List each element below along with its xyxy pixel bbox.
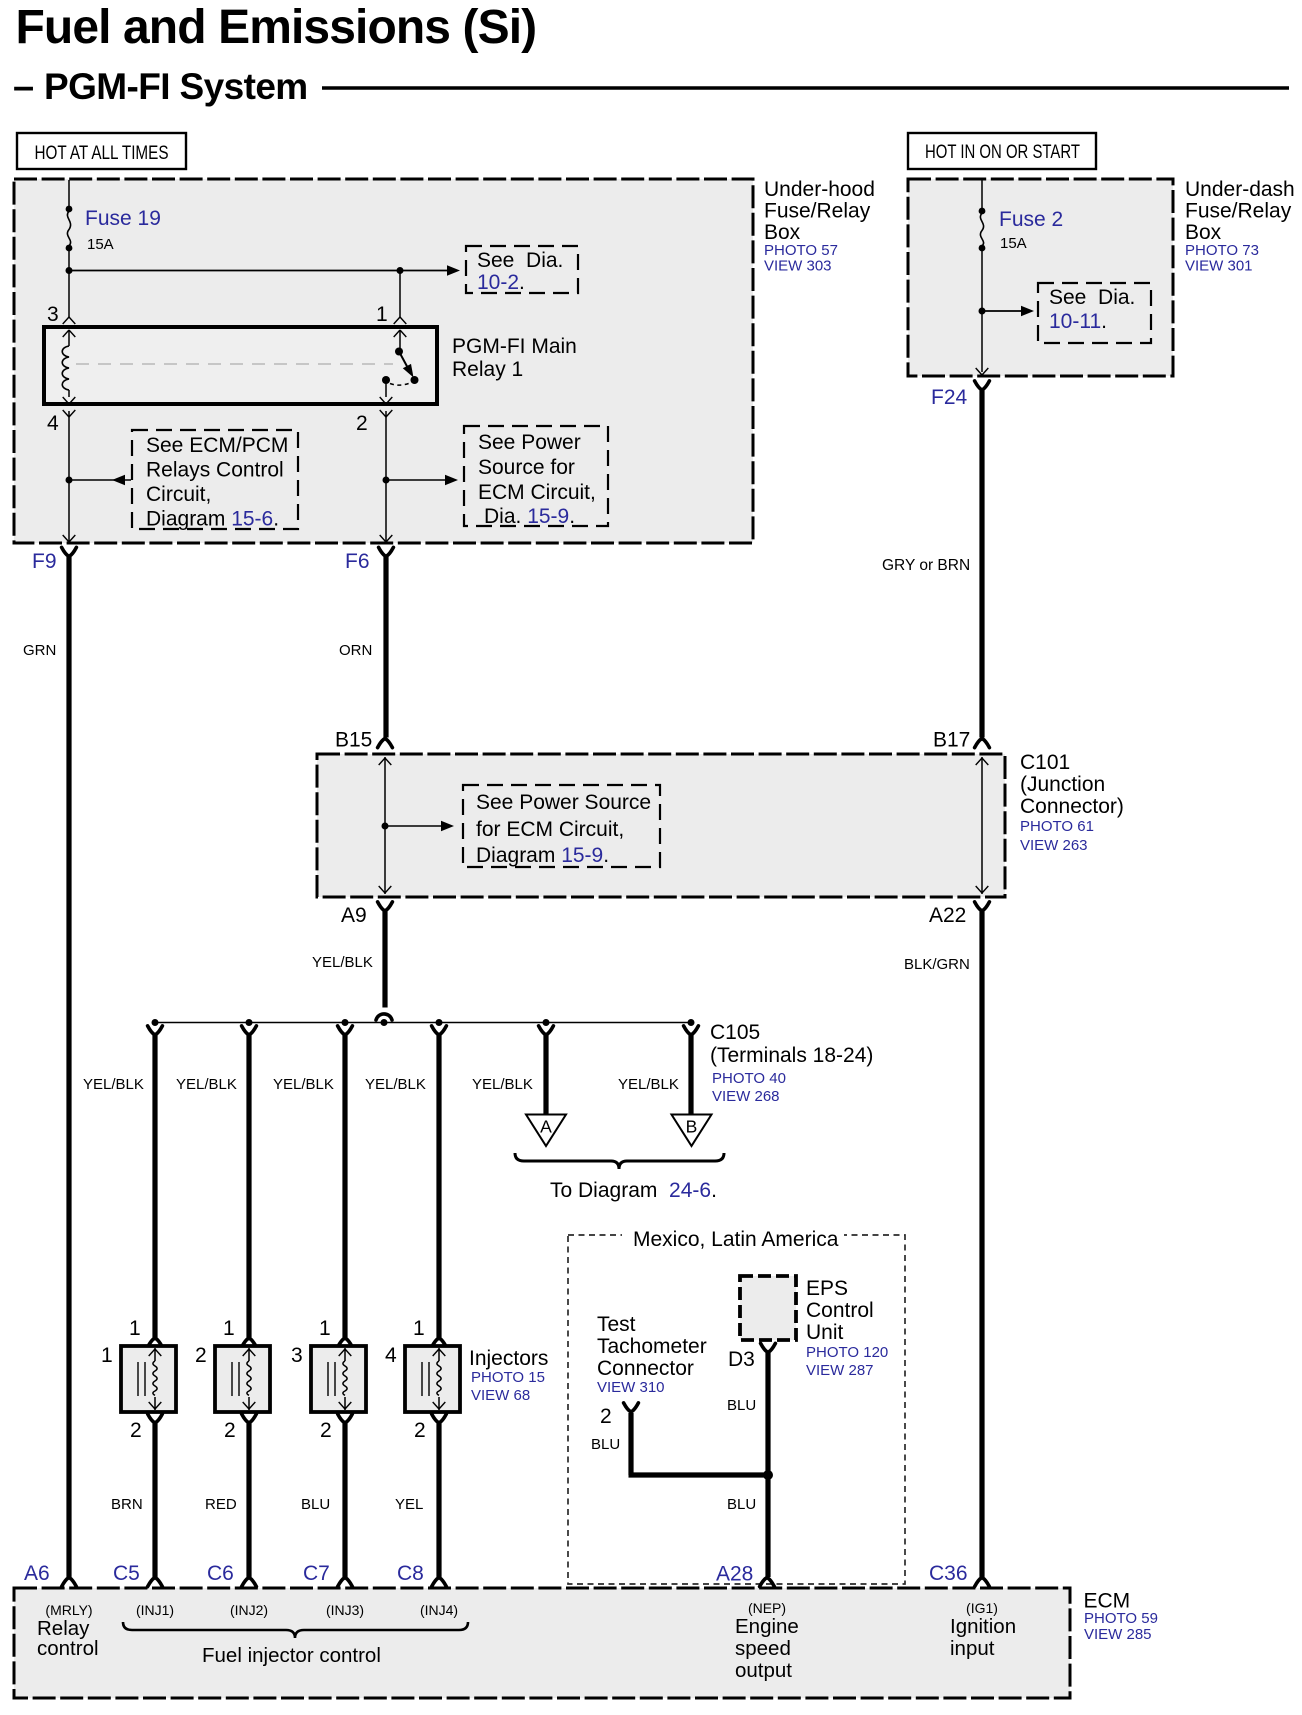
- svg-text:YEL/BLK: YEL/BLK: [472, 1076, 533, 1093]
- svg-text:See Dia.: See Dia.: [477, 249, 563, 272]
- svg-text:To Diagram 24-6.: To Diagram 24-6.: [550, 1179, 717, 1202]
- svg-text:B15: B15: [335, 729, 372, 752]
- svg-text:(Terminals 18-24): (Terminals 18-24): [710, 1044, 873, 1067]
- svg-text:HOT AT ALL TIMES: HOT AT ALL TIMES: [35, 142, 169, 164]
- svg-text:See Power Source: See Power Source: [476, 791, 651, 814]
- svg-text:VIEW 301: VIEW 301: [1185, 258, 1253, 275]
- svg-text:Test: Test: [597, 1313, 636, 1336]
- svg-text:GRN: GRN: [23, 642, 56, 659]
- svg-text:Fuel injector control: Fuel injector control: [202, 1644, 381, 1667]
- svg-text:EPS: EPS: [806, 1277, 848, 1300]
- svg-text:HOT IN ON OR START: HOT IN ON OR START: [925, 141, 1080, 163]
- svg-text:Mexico, Latin America: Mexico, Latin America: [633, 1228, 839, 1251]
- svg-text:B: B: [686, 1117, 698, 1137]
- svg-text:C7: C7: [303, 1562, 330, 1585]
- svg-text:VIEW 310: VIEW 310: [597, 1379, 665, 1396]
- svg-text:10-2.: 10-2.: [477, 271, 525, 294]
- svg-text:YEL/BLK: YEL/BLK: [83, 1076, 144, 1093]
- svg-text:Connector): Connector): [1020, 795, 1124, 818]
- svg-text:(INJ2): (INJ2): [230, 1602, 268, 1618]
- svg-text:Relays Control: Relays Control: [146, 459, 284, 482]
- svg-text:(INJ3): (INJ3): [326, 1602, 364, 1618]
- svg-text:BLU: BLU: [301, 1496, 330, 1513]
- svg-text:F6: F6: [345, 550, 370, 573]
- svg-text:2: 2: [356, 412, 368, 435]
- svg-text:See Power: See Power: [478, 431, 581, 454]
- svg-text:2: 2: [600, 1405, 612, 1428]
- svg-text:YEL/BLK: YEL/BLK: [618, 1076, 679, 1093]
- svg-text:VIEW 303: VIEW 303: [764, 258, 832, 275]
- svg-text:Diagram 15-6.: Diagram 15-6.: [146, 508, 279, 531]
- svg-text:15A: 15A: [1000, 235, 1027, 252]
- svg-text:YEL/BLK: YEL/BLK: [273, 1076, 334, 1093]
- svg-text:VIEW 268: VIEW 268: [712, 1088, 780, 1105]
- svg-text:ECM Circuit,: ECM Circuit,: [478, 481, 596, 504]
- svg-text:VIEW 263: VIEW 263: [1020, 837, 1088, 854]
- svg-text:ORN: ORN: [339, 642, 372, 659]
- svg-text:C6: C6: [207, 1562, 234, 1585]
- svg-text:(IG1): (IG1): [966, 1600, 998, 1616]
- svg-text:Box: Box: [764, 221, 801, 244]
- svg-text:Fuse 19: Fuse 19: [85, 207, 161, 230]
- svg-text:PHOTO 73: PHOTO 73: [1185, 242, 1259, 259]
- svg-text:YEL/BLK: YEL/BLK: [365, 1076, 426, 1093]
- svg-text:C36: C36: [929, 1562, 968, 1585]
- svg-text:Dia. 15-9.: Dia. 15-9.: [484, 505, 575, 528]
- svg-text:PHOTO 15: PHOTO 15: [471, 1369, 545, 1386]
- svg-text:4: 4: [47, 412, 59, 435]
- svg-text:PGM-FI System: PGM-FI System: [44, 66, 308, 107]
- svg-text:PHOTO 57: PHOTO 57: [764, 242, 838, 259]
- svg-text:YEL: YEL: [395, 1496, 423, 1513]
- svg-text:1: 1: [101, 1344, 113, 1367]
- svg-text:2: 2: [224, 1419, 236, 1442]
- svg-text:15A: 15A: [87, 236, 114, 253]
- svg-text:2: 2: [414, 1419, 426, 1442]
- svg-text:input: input: [950, 1637, 995, 1660]
- svg-text:BLU: BLU: [727, 1397, 756, 1414]
- svg-text:BLK/GRN: BLK/GRN: [904, 956, 970, 973]
- svg-text:See ECM/PCM: See ECM/PCM: [146, 434, 288, 457]
- svg-text:(INJ1): (INJ1): [136, 1602, 174, 1618]
- svg-text:BLU: BLU: [591, 1436, 620, 1453]
- svg-text:Under-dash: Under-dash: [1185, 178, 1295, 201]
- svg-text:C5: C5: [113, 1562, 140, 1585]
- svg-text:Source for: Source for: [478, 456, 575, 479]
- svg-text:(Junction: (Junction: [1020, 773, 1105, 796]
- svg-text:VIEW 68: VIEW 68: [471, 1387, 530, 1404]
- svg-text:1: 1: [319, 1317, 331, 1340]
- svg-text:BRN: BRN: [111, 1496, 143, 1513]
- svg-text:A22: A22: [929, 904, 966, 927]
- svg-text:PHOTO 40: PHOTO 40: [712, 1070, 786, 1087]
- svg-text:VIEW 287: VIEW 287: [806, 1362, 874, 1379]
- svg-text:2: 2: [195, 1344, 207, 1367]
- svg-text:D3: D3: [728, 1348, 755, 1371]
- svg-text:for ECM Circuit,: for ECM Circuit,: [476, 818, 624, 841]
- svg-text:(NEP): (NEP): [748, 1600, 786, 1616]
- svg-text:Tachometer: Tachometer: [597, 1335, 707, 1358]
- svg-text:VIEW 285: VIEW 285: [1084, 1626, 1152, 1643]
- svg-text:Fuse 2: Fuse 2: [999, 208, 1063, 231]
- svg-text:RED: RED: [205, 1496, 237, 1513]
- svg-text:–: –: [13, 66, 34, 108]
- svg-text:2: 2: [130, 1419, 142, 1442]
- svg-text:PGM-FI Main: PGM-FI Main: [452, 335, 577, 358]
- svg-text:Fuse/Relay: Fuse/Relay: [1185, 200, 1292, 223]
- svg-text:PHOTO 61: PHOTO 61: [1020, 818, 1094, 835]
- svg-text:A28: A28: [716, 1563, 753, 1586]
- svg-text:Fuel and Emissions (Si): Fuel and Emissions (Si): [16, 1, 537, 54]
- svg-text:1: 1: [223, 1317, 235, 1340]
- svg-text:C101: C101: [1020, 751, 1070, 774]
- svg-text:1: 1: [129, 1317, 141, 1340]
- svg-text:Connector: Connector: [597, 1357, 694, 1380]
- svg-text:(INJ4): (INJ4): [420, 1602, 458, 1618]
- svg-text:control: control: [37, 1637, 99, 1660]
- svg-text:YEL/BLK: YEL/BLK: [312, 954, 373, 971]
- svg-text:PHOTO 59: PHOTO 59: [1084, 1610, 1158, 1627]
- svg-text:Under-hood: Under-hood: [764, 178, 875, 201]
- svg-text:Control: Control: [806, 1299, 874, 1322]
- svg-text:PHOTO 120: PHOTO 120: [806, 1344, 888, 1361]
- svg-text:2: 2: [320, 1419, 332, 1442]
- svg-text:Engine: Engine: [735, 1615, 799, 1638]
- svg-text:B17: B17: [933, 729, 970, 752]
- svg-text:output: output: [735, 1659, 792, 1682]
- svg-text:3: 3: [47, 303, 59, 326]
- svg-text:speed: speed: [735, 1637, 791, 1660]
- svg-text:(MRLY): (MRLY): [45, 1602, 92, 1618]
- svg-text:Box: Box: [1185, 221, 1222, 244]
- svg-text:Circuit,: Circuit,: [146, 483, 211, 506]
- svg-text:A: A: [540, 1117, 552, 1137]
- svg-text:1: 1: [413, 1317, 425, 1340]
- svg-text:3: 3: [291, 1344, 303, 1367]
- svg-text:GRY or BRN: GRY or BRN: [882, 557, 970, 574]
- svg-text:Unit: Unit: [806, 1321, 844, 1344]
- svg-text:A6: A6: [24, 1562, 50, 1585]
- svg-text:Fuse/Relay: Fuse/Relay: [764, 200, 871, 223]
- svg-text:Relay 1: Relay 1: [452, 358, 523, 381]
- svg-text:1: 1: [376, 303, 388, 326]
- svg-text:F9: F9: [32, 550, 57, 573]
- svg-text:4: 4: [385, 1344, 397, 1367]
- svg-text:BLU: BLU: [727, 1496, 756, 1513]
- svg-text:Injectors: Injectors: [469, 1347, 548, 1370]
- svg-text:Ignition: Ignition: [950, 1615, 1016, 1638]
- svg-text:C8: C8: [397, 1562, 424, 1585]
- svg-text:YEL/BLK: YEL/BLK: [176, 1076, 237, 1093]
- svg-text:A9: A9: [341, 904, 367, 927]
- svg-text:See Dia.: See Dia.: [1049, 286, 1135, 309]
- svg-text:10-11.: 10-11.: [1049, 310, 1107, 333]
- svg-text:F24: F24: [931, 386, 968, 409]
- svg-text:C105: C105: [710, 1021, 760, 1044]
- svg-text:Diagram 15-9.: Diagram 15-9.: [476, 844, 609, 867]
